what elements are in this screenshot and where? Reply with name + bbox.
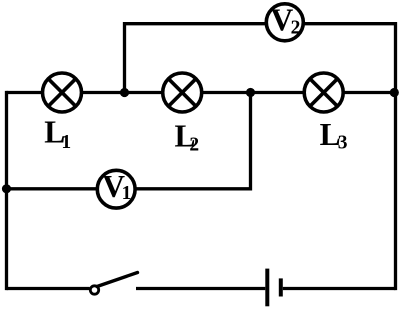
lamp L1 xyxy=(43,73,82,112)
battery: long plate (+) xyxy=(265,269,269,307)
wire: main horizontal through lamps, y=92.5 xyxy=(7,91,396,94)
node A (junction dot left of L2 top branch) xyxy=(120,88,129,97)
battery: short plate (-) xyxy=(279,278,283,296)
wire: bottom right segment battery to right rail xyxy=(283,287,396,290)
wire: V2 branch (up from node A, across top, down right side) xyxy=(125,24,396,290)
svg-text:3: 3 xyxy=(338,132,348,153)
switch S (pivot circle and lever) xyxy=(90,273,137,295)
svg-text:1: 1 xyxy=(61,132,71,153)
lamp L2 xyxy=(163,73,202,112)
wire: bottom middle segment switch to battery xyxy=(136,287,265,290)
wire: left vertical x=6.5 xyxy=(5,91,8,290)
voltmeter V2 xyxy=(266,3,303,41)
svg-text:2: 2 xyxy=(291,18,301,39)
wire: V1 branch (down from node B, left to left rail) xyxy=(7,93,251,189)
label L1 xyxy=(44,115,71,154)
node B (junction dot right of L2) xyxy=(246,88,255,97)
node C (junction dot on right rail) xyxy=(390,88,399,97)
label L3 xyxy=(320,117,348,154)
svg-text:2: 2 xyxy=(189,134,199,155)
wire: bottom left segment to switch xyxy=(7,287,90,290)
label L2 xyxy=(175,119,200,156)
svg-text:1: 1 xyxy=(122,183,132,204)
voltmeter V1 xyxy=(97,169,135,208)
lamp L3 xyxy=(304,73,343,112)
node D (junction dot on left rail at V1 branch) xyxy=(2,184,11,193)
